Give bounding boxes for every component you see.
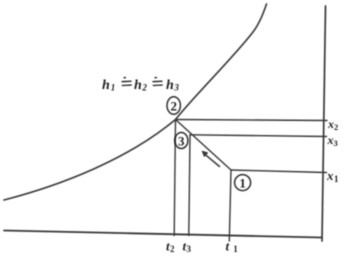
horizontal line x3 from point 3 bbox=[190, 135, 327, 137]
vertical line t1 bbox=[229, 170, 231, 241]
horizontal line x1 from point 1 bbox=[231, 170, 327, 173]
circled point 2 bbox=[167, 97, 180, 115]
svg-text:1: 1 bbox=[111, 83, 116, 93]
svg-text:1: 1 bbox=[334, 174, 339, 184]
diagonal line from point 2 to point 1 bbox=[176, 120, 232, 171]
circled point 1 bbox=[235, 175, 251, 191]
svg-text:1: 1 bbox=[239, 176, 246, 191]
saturation curve (upper branch) bbox=[176, 4, 267, 120]
svg-text:x: x bbox=[327, 133, 334, 147]
svg-text:h: h bbox=[134, 78, 142, 93]
svg-text:1: 1 bbox=[233, 244, 238, 254]
arrow along diagonal pointing to upper-left bbox=[206, 155, 220, 167]
svg-text:h: h bbox=[102, 78, 110, 93]
svg-text:t: t bbox=[226, 239, 230, 254]
svg-text:2: 2 bbox=[334, 122, 338, 132]
circled point 3 bbox=[175, 133, 188, 149]
saturation curve (lower branch) bbox=[4, 120, 176, 201]
approx-equal symbol 1 bbox=[122, 78, 132, 86]
svg-text:x: x bbox=[327, 117, 334, 131]
horizontal line x2 from point 2 bbox=[176, 120, 328, 121]
approx-equal symbol 2 bbox=[153, 78, 163, 86]
right axis (x axis) bbox=[322, 6, 326, 241]
svg-text:x: x bbox=[326, 168, 334, 183]
svg-text:2: 2 bbox=[170, 244, 175, 254]
svg-text:2: 2 bbox=[141, 83, 147, 93]
vertical line t3 bbox=[189, 135, 190, 236]
svg-text:3: 3 bbox=[178, 133, 185, 148]
svg-text:h: h bbox=[166, 78, 174, 93]
svg-text:2: 2 bbox=[170, 99, 177, 114]
svg-text:3: 3 bbox=[187, 244, 192, 254]
svg-text:3: 3 bbox=[173, 83, 179, 93]
label h1 = h2 = h3 bbox=[102, 78, 179, 93]
vertical line t2 bbox=[174, 120, 175, 236]
svg-text:3: 3 bbox=[334, 138, 338, 148]
bottom axis (t axis) bbox=[4, 231, 322, 238]
arrowhead of diagonal arrow bbox=[202, 151, 208, 157]
